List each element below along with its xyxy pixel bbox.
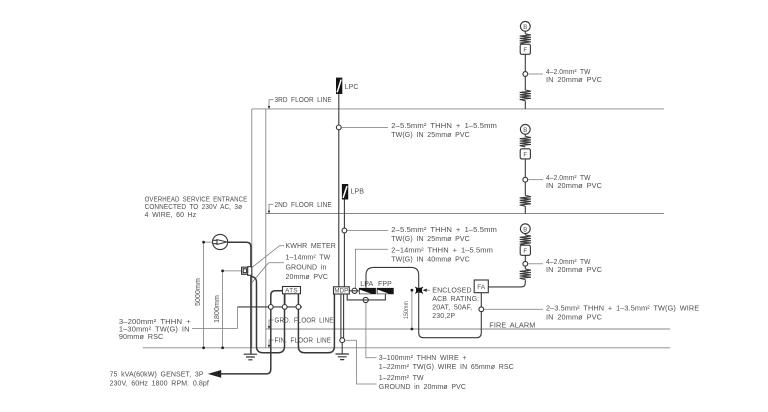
wire FA to riser elbow [488,280,525,287]
svg-text:1800mm: 1800mm [214,295,221,323]
svg-text:FIN. FLOOR LINE: FIN. FLOOR LINE [275,338,332,345]
svg-text:230V, 60Hz 1800 RPM. 0.8pf: 230V, 60Hz 1800 RPM. 0.8pf [110,381,209,388]
dimension 5000mm [195,241,213,349]
label LPC feeder [341,123,497,139]
wire [524,54,526,71]
coil 3a [520,235,531,245]
node LPC feeder [336,125,341,130]
bell B3 [520,224,530,234]
wire [524,255,526,261]
fuse box F2 [520,149,530,159]
coil 1b [520,90,531,101]
label 3-200mm feeder [119,307,237,341]
ground electrode symbol [244,354,257,360]
riser circuit 1 (3rd floor) [520,21,602,109]
bus feeder line [237,306,302,308]
fuse box F3 [520,245,530,255]
svg-text:90mmø RSC: 90mmø RSC [119,334,163,341]
node 3 [523,261,528,266]
wire service to ATS under floor [252,277,285,353]
svg-text:1–30mm² TW(G) IN: 1–30mm² TW(G) IN [119,326,190,333]
svg-text:2–5.5mm² THHN + 1–5.5mm: 2–5.5mm² THHN + 1–5.5mm [391,227,497,234]
fuse box F1 [520,44,530,54]
riser LPB feeder [343,200,345,287]
label branch 3 [528,259,602,274]
wire MDP to ground node [341,294,344,338]
riser circuit 3 (grd floor) [520,224,602,280]
svg-text:GROUND in 20mmø PVC: GROUND in 20mmø PVC [379,384,466,391]
breaker circle MDP-LPA [349,288,359,293]
svg-text:2–5.5mm² THHN + 1–5.5mm: 2–5.5mm² THHN + 1–5.5mm [391,123,497,130]
svg-text:IN 20mmø PVC: IN 20mmø PVC [546,77,602,84]
bus under panels [347,294,385,300]
svg-text:1–22mm² TW(G) WIRE IN 65mmø RS: 1–22mm² TW(G) WIRE IN 65mmø RSC [379,364,514,371]
svg-text:GRD. FLOOR LINE: GRD. FLOOR LINE [275,318,334,325]
wire ACB to fire alarm loop [419,293,482,338]
FA box [474,280,488,293]
wire service drop [228,242,251,267]
node on ATS right leg [296,305,301,310]
svg-text:F: F [523,249,527,255]
svg-text:B: B [523,128,527,134]
panel FPP [377,281,394,294]
coil 2a [520,136,531,146]
3rd floor line [252,108,664,110]
panel LPC [336,78,359,94]
node bus under panels [363,297,368,302]
MDP box [334,287,350,295]
svg-text:150mm: 150mm [403,301,410,319]
riser wall line right [265,109,267,348]
wire ATS right leg to MDP under floor [298,294,334,353]
node on ATS bottom leg [282,305,287,310]
svg-text:TW(G) IN 40mmø PVC: TW(G) IN 40mmø PVC [391,256,470,263]
svg-text:2ND FLOOR LINE: 2ND FLOOR LINE [275,202,333,209]
svg-text:20mmø PVC: 20mmø PVC [286,274,329,281]
node FA riser [479,307,484,312]
node ground mdp [340,338,345,343]
dimension 150mm [403,289,413,331]
svg-text:4–2.0mm² TW: 4–2.0mm² TW [546,175,591,182]
wire [524,31,526,34]
svg-text:ACB RATING:: ACB RATING: [432,296,479,303]
svg-text:1–22mm² TW: 1–22mm² TW [379,375,424,382]
2nd floor line [266,213,664,215]
svg-text:IN 20mmø PVC: IN 20mmø PVC [546,315,602,322]
svg-text:OVERHEAD SERVICE ENTRANCE: OVERHEAD SERVICE ENTRANCE [145,196,248,203]
dimension 1800mm [214,270,242,350]
svg-text:3–200mm² THHN +: 3–200mm² THHN + [119,319,191,326]
label 1-22mm ground [345,340,466,391]
svg-text:FPP: FPP [378,281,392,288]
svg-text:MDP: MDP [334,288,348,295]
svg-text:4 WIRE, 60 Hz: 4 WIRE, 60 Hz [145,212,197,219]
label LPB feeder [347,227,497,243]
wire [524,101,526,109]
svg-text:75 kVA(60kW) GENSET, 3P: 75 kVA(60kW) GENSET, 3P [110,372,204,379]
svg-text:4–2.0mm² TW: 4–2.0mm² TW [546,69,591,76]
wire [524,234,526,235]
wire [524,182,526,195]
svg-text:LPB: LPB [351,188,365,195]
wire ATS bottom leg [284,294,286,307]
svg-text:FA: FA [477,284,486,291]
wire meter riser to ground [250,275,252,353]
label branch 2 [528,175,602,190]
svg-text:F: F [523,152,527,158]
riser LPC feeder [338,94,340,287]
riser wall line left [251,109,253,348]
node 2 [523,177,528,182]
svg-text:IN 20mmø PVC: IN 20mmø PVC [546,267,602,274]
bell B1 [520,21,530,31]
label FIN. FLOOR LINE [268,338,332,348]
finish floor line [143,347,670,349]
wire [524,159,526,177]
svg-text:5000mm: 5000mm [195,278,202,306]
ground floor line [266,328,670,330]
svg-text:3–100mm² THHN WIRE +: 3–100mm² THHN WIRE + [379,355,467,362]
svg-text:F: F [523,48,527,54]
svg-text:TW(G) IN 25mmø PVC: TW(G) IN 25mmø PVC [391,236,470,243]
ATS box [283,287,301,295]
svg-text:3RD FLOOR LINE: 3RD FLOOR LINE [275,97,333,104]
bell B2 [520,124,530,134]
svg-text:4–2.0mm² TW: 4–2.0mm² TW [546,259,591,266]
kwhr meter [242,267,252,276]
wire ATS to genset riser [221,291,283,374]
svg-text:2–14mm² THHN + 1–5.5mm: 2–14mm² THHN + 1–5.5mm [391,247,493,254]
svg-text:2–3.5mm² THHN + 1–3.5mm² TW(G): 2–3.5mm² THHN + 1–3.5mm² TW(G) WIRE [546,306,699,313]
coil 1a [520,34,531,44]
svg-text:B: B [523,25,527,31]
svg-text:LPC: LPC [345,84,359,91]
node 1 [523,72,528,77]
label branch 1 [528,69,602,84]
svg-text:B: B [523,227,527,233]
wire [524,134,526,136]
weatherhead service symbol [213,234,228,249]
svg-text:1–14mm² TW: 1–14mm² TW [286,255,331,262]
wire [524,266,526,269]
panel LPB [342,184,364,200]
svg-text:ATS: ATS [285,288,298,295]
coil 3b [520,269,531,280]
riser circuit 2 (2nd floor) [520,124,602,213]
svg-text:CONNECTED TO 230V AC, 3ø: CONNECTED TO 230V AC, 3ø [145,204,243,211]
label KWHR METER [252,243,336,267]
ground symbol mdp [336,354,349,360]
svg-text:GROUND in: GROUND in [286,264,327,271]
label 3-100mm feeder [366,303,514,372]
wire [524,206,526,213]
label 1-14mm ground [250,255,330,285]
wire LPA to ACB arc [366,267,419,288]
wire [524,76,526,90]
svg-text:IN 20mmø PVC: IN 20mmø PVC [546,183,602,190]
node LPB feeder [342,228,347,233]
wire node to earth [341,343,343,354]
genset arrowhead [208,370,221,378]
svg-text:FIRE ALARM: FIRE ALARM [489,323,535,330]
panel LPA [359,281,376,294]
label 3RD FLOOR LINE [268,97,332,109]
node on genset leg [268,305,273,310]
svg-text:KWHR METER: KWHR METER [286,243,336,250]
svg-text:230,2P: 230,2P [432,313,455,320]
svg-text:ENCLOSED: ENCLOSED [432,288,471,295]
svg-text:TW(G) IN 25mmø PVC: TW(G) IN 25mmø PVC [391,132,470,139]
label GRD. FLOOR LINE [268,318,334,330]
ACB breaker symbol [415,287,423,293]
label 2ND FLOOR LINE [268,202,332,214]
svg-text:LPA: LPA [360,281,373,288]
label enclosed ACB [423,288,480,321]
label FA feeder [484,306,700,322]
label 2-14mm feeder [355,247,493,288]
coil 2b [520,196,531,207]
svg-text:20AT, 50AF,: 20AT, 50AF, [432,305,472,312]
